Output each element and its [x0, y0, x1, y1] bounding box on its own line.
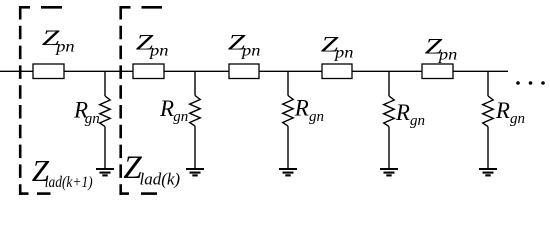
- wire shunt branch 4 lower: [388, 127, 390, 168]
- resistor R_gn zigzag 3: [283, 96, 294, 127]
- svg-text:lad(k): lad(k): [140, 169, 181, 188]
- dashed box Z_lad(k+1) top corner: [19, 6, 30, 9]
- resistor R_gn zigzag 2: [190, 96, 201, 127]
- wire shunt branch 1 lower: [104, 127, 106, 168]
- dashed box Z_lad(k) bottom corner: [120, 192, 130, 195]
- impedance Z_pn box 2: [133, 64, 164, 79]
- svg-text:gn: gn: [309, 109, 324, 125]
- label Z_pn 2: [136, 30, 155, 54]
- svg-text:pn: pn: [240, 42, 261, 60]
- svg-text:lad(k+1): lad(k+1): [45, 174, 93, 191]
- wire main horizontal bus: [0, 70, 508, 72]
- impedance Z_pn box 5: [422, 64, 453, 79]
- ground 3: [279, 169, 297, 175]
- wire shunt branch 2 upper: [194, 71, 196, 95]
- dashed box Z_lad(k+1) left edge: [19, 6, 22, 195]
- impedance Z_pn box 1: [33, 64, 64, 79]
- ground 1: [96, 169, 114, 175]
- ellipsis dots: [516, 81, 545, 85]
- dashed box Z_lad(k) bottom dash: [141, 192, 157, 195]
- svg-text:R: R: [395, 100, 410, 125]
- impedance Z_pn box 4: [322, 64, 352, 79]
- label Z_pn 5: [425, 34, 444, 58]
- dashed box Z_lad(k+1) top dash: [41, 6, 62, 9]
- dashed box Z_lad(k+1) bottom corner: [19, 192, 29, 195]
- svg-text:gn: gn: [510, 111, 525, 127]
- wire shunt branch 3 lower: [287, 126, 289, 168]
- svg-text:gn: gn: [173, 109, 188, 125]
- wire shunt branch 4 upper: [388, 71, 390, 96]
- resistor R_gn zigzag 5: [483, 96, 494, 127]
- svg-text:R: R: [495, 98, 510, 123]
- label Z_pn 1: [42, 26, 61, 50]
- wire shunt branch 5 upper: [487, 71, 489, 96]
- svg-text:pn: pn: [54, 37, 75, 55]
- ground 5: [479, 169, 497, 175]
- wire shunt branch 1 upper: [104, 71, 106, 96]
- dashed box Z_lad(k+1) bottom dash: [37, 192, 51, 195]
- svg-text:gn: gn: [410, 113, 425, 129]
- ground 4: [380, 169, 398, 175]
- svg-text:R: R: [294, 96, 309, 121]
- ground 2: [186, 169, 204, 175]
- svg-text:pn: pn: [437, 46, 458, 64]
- resistor R_gn zigzag 4: [384, 96, 395, 127]
- svg-text:gn: gn: [85, 111, 100, 127]
- svg-text:R: R: [159, 96, 174, 121]
- dashed box Z_lad(k) top corner: [120, 6, 131, 9]
- label Z_pn 3: [228, 30, 247, 54]
- dashed box Z_lad(k) left edge: [119, 6, 122, 195]
- wire shunt branch 3 upper: [287, 71, 289, 95]
- impedance Z_pn box 3: [229, 64, 259, 79]
- dashed box Z_lad(k) top dash: [142, 6, 163, 9]
- svg-text:pn: pn: [148, 42, 169, 60]
- wire shunt branch 2 lower: [194, 126, 196, 168]
- label Z_pn 4: [321, 32, 340, 56]
- wire shunt branch 5 lower: [487, 127, 489, 168]
- resistor R_gn zigzag 1: [100, 96, 111, 127]
- svg-text:pn: pn: [333, 44, 354, 62]
